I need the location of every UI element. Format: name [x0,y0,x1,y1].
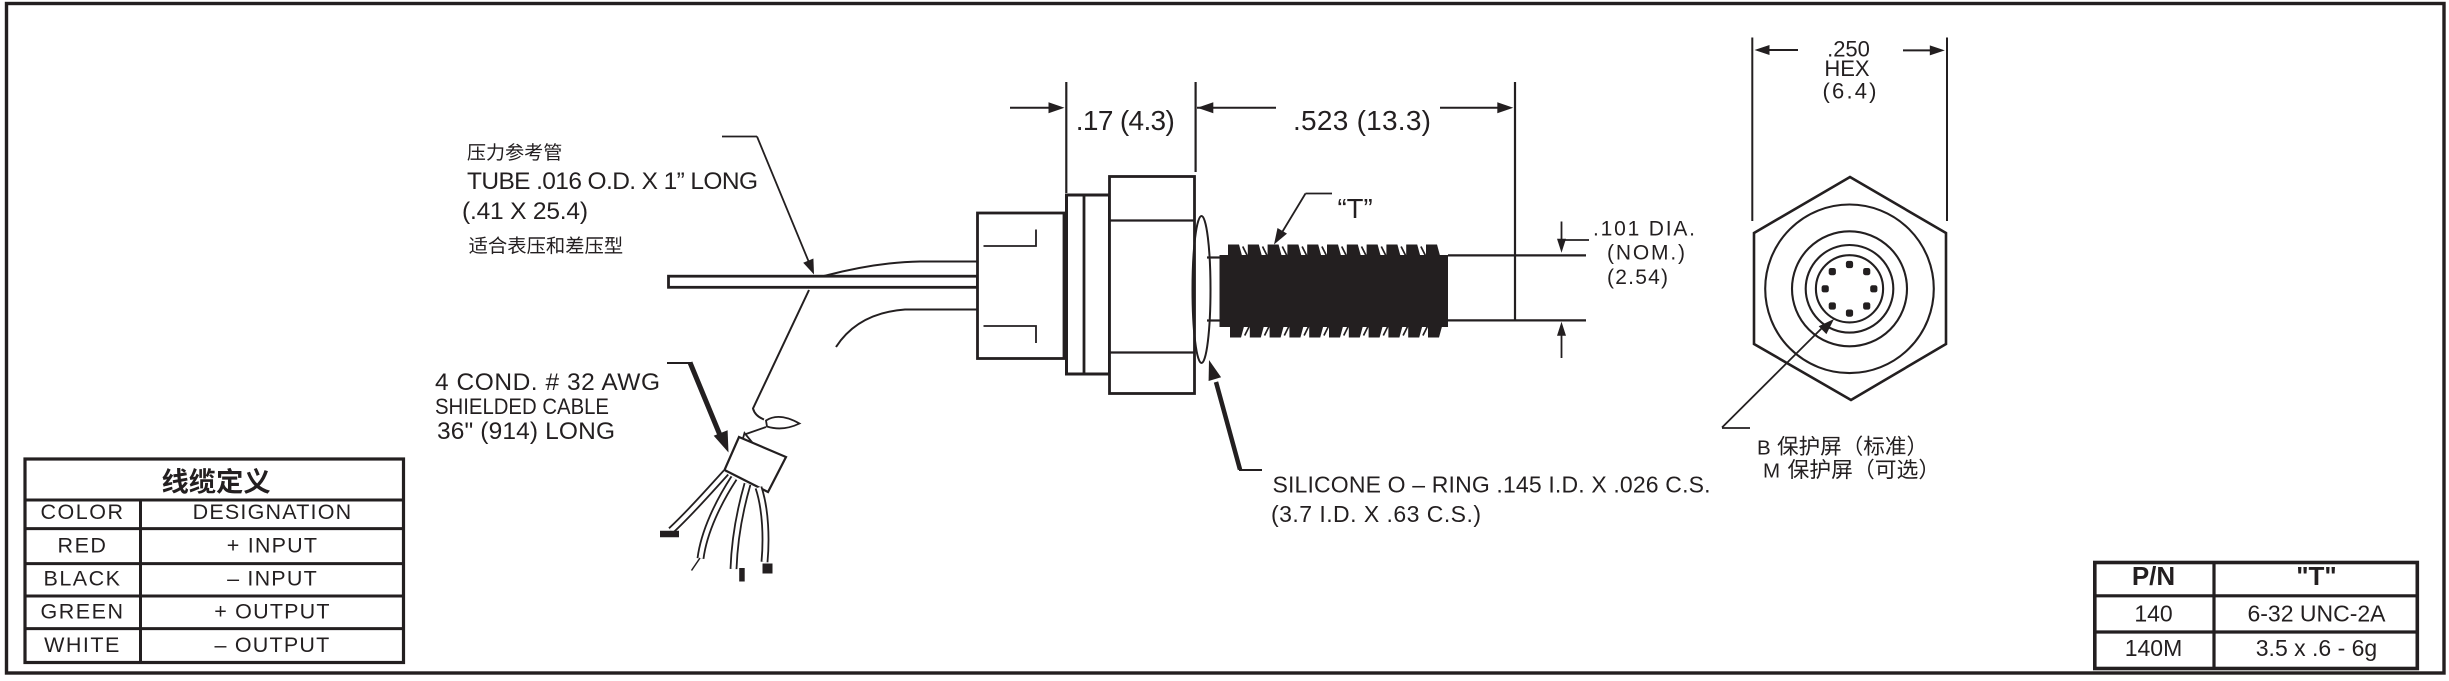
svg-text:140: 140 [2134,601,2172,627]
dimension .523 (13.3) [1196,82,1515,320]
svg-text:(.41 X 25.4): (.41 X 25.4) [462,198,588,225]
svg-text:(NOM.): (NOM.) [1607,242,1685,265]
dimension .101 DIA [1557,218,1695,359]
cable end jacket block [741,433,754,446]
svg-text:.17 (4.3): .17 (4.3) [1076,105,1175,136]
svg-text:P/N: P/N [2132,561,2175,591]
svg-text:COLOR: COLOR [41,500,125,524]
cable jacket tip leaf [766,417,800,429]
wires fanned from cable end [660,473,773,582]
hex body (side view) [1110,177,1195,394]
svg-text:+ OUTPUT: + OUTPUT [214,600,331,624]
svg-text:.523 (13.3): .523 (13.3) [1293,105,1431,136]
svg-text:TUBE .016 O.D. X 1” LONG: TUBE .016 O.D. X 1” LONG [467,168,758,195]
svg-text:3.5 x .6 - 6g: 3.5 x .6 - 6g [2256,635,2377,661]
label "T" with leader [1274,193,1373,245]
svg-text:SILICONE O – RING .145 I.D.: SILICONE O – RING .145 I.D. X .026 C.S. [1273,472,1711,498]
O-ring [1193,216,1211,363]
collar band [1067,195,1110,374]
sensor rear block [978,213,1065,359]
thread stub [1207,256,1221,258]
svg-text:BLACK: BLACK [43,567,121,591]
svg-text:– OUTPUT: – OUTPUT [215,633,331,657]
svg-text:M: M [1763,460,1780,483]
svg-text:“T”: “T” [1338,193,1373,224]
hex end view [1754,177,1946,400]
wire upper into body [824,262,977,277]
svg-text:SHIELDED CABLE: SHIELDED CABLE [435,394,609,419]
svg-text:B: B [1757,437,1771,460]
svg-text:RED: RED [58,533,108,557]
table: P/N thread options [2093,561,2419,669]
leader arrow to tube [722,137,814,275]
label: 4 COND cable note [435,369,660,445]
svg-text:DESIGNATION: DESIGNATION [193,500,353,524]
thread "T" (black) [1220,245,1449,338]
rear block internal step marks [984,230,1037,344]
svg-text:(2.54): (2.54) [1607,266,1668,289]
svg-text:HEX: HEX [1824,56,1870,81]
label: silicone O-ring note with leader [1209,360,1711,527]
svg-text:(3.7 I.D. X .63 C.S.): (3.7 I.D. X .63 C.S.) [1271,501,1481,527]
wire lower into body [836,310,977,348]
pressure reference tube [669,276,978,287]
dimension .17 (4.3) [1010,82,1175,193]
svg-text:.101 DIA.: .101 DIA. [1593,218,1695,241]
svg-text:GREEN: GREEN [41,600,125,624]
rod (smooth shank) [1448,254,1586,256]
svg-text:6-32 UNC-2A: 6-32 UNC-2A [2247,601,2386,627]
svg-text:+ INPUT: + INPUT [227,533,318,557]
label: B/M shield note with leader [1722,319,1925,483]
svg-text:4 COND. # 32 AWG: 4 COND. # 32 AWG [435,369,660,396]
label: pressure reference tube note [462,143,758,254]
svg-text:"T": "T" [2296,561,2337,591]
svg-text:140M: 140M [2125,635,2183,661]
cable edge line [753,290,809,420]
svg-text:(6.4): (6.4) [1823,79,1877,104]
leader arrow to cable end [667,363,729,453]
dimension .250 HEX [1752,37,1947,222]
connector pins (8) [1846,261,1853,268]
svg-text:– INPUT: – INPUT [227,567,318,591]
svg-text:36" (914) LONG: 36" (914) LONG [437,418,615,445]
table: cable definition (线缆定义) [24,459,405,663]
svg-text:WHITE: WHITE [44,633,121,657]
